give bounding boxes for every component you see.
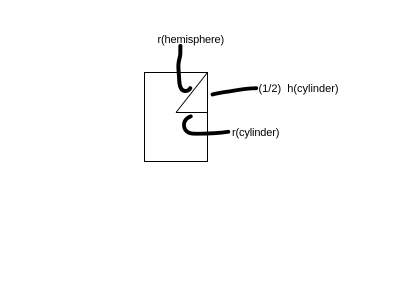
- arrow from right side of rectangle to (1/2) h(cylinder) label: [213, 88, 257, 94]
- svg-text:r(hemisphere): r(hemisphere): [158, 34, 225, 46]
- arrow from r(hemisphere) label down to triangle: [178, 46, 190, 91]
- rectangle (cylinder cross-section): [145, 73, 208, 162]
- svg-text:(1/2) h(cylinder): (1/2) h(cylinder): [259, 83, 339, 95]
- arrow from inner line down to r(cylinder) label: [184, 116, 228, 133]
- svg-text:r(cylinder): r(cylinder): [232, 127, 279, 139]
- diagonal line (hypotenuse of inscribed triangle): [176, 73, 208, 113]
- inner horizontal line (triangle base): [176, 112, 208, 114]
